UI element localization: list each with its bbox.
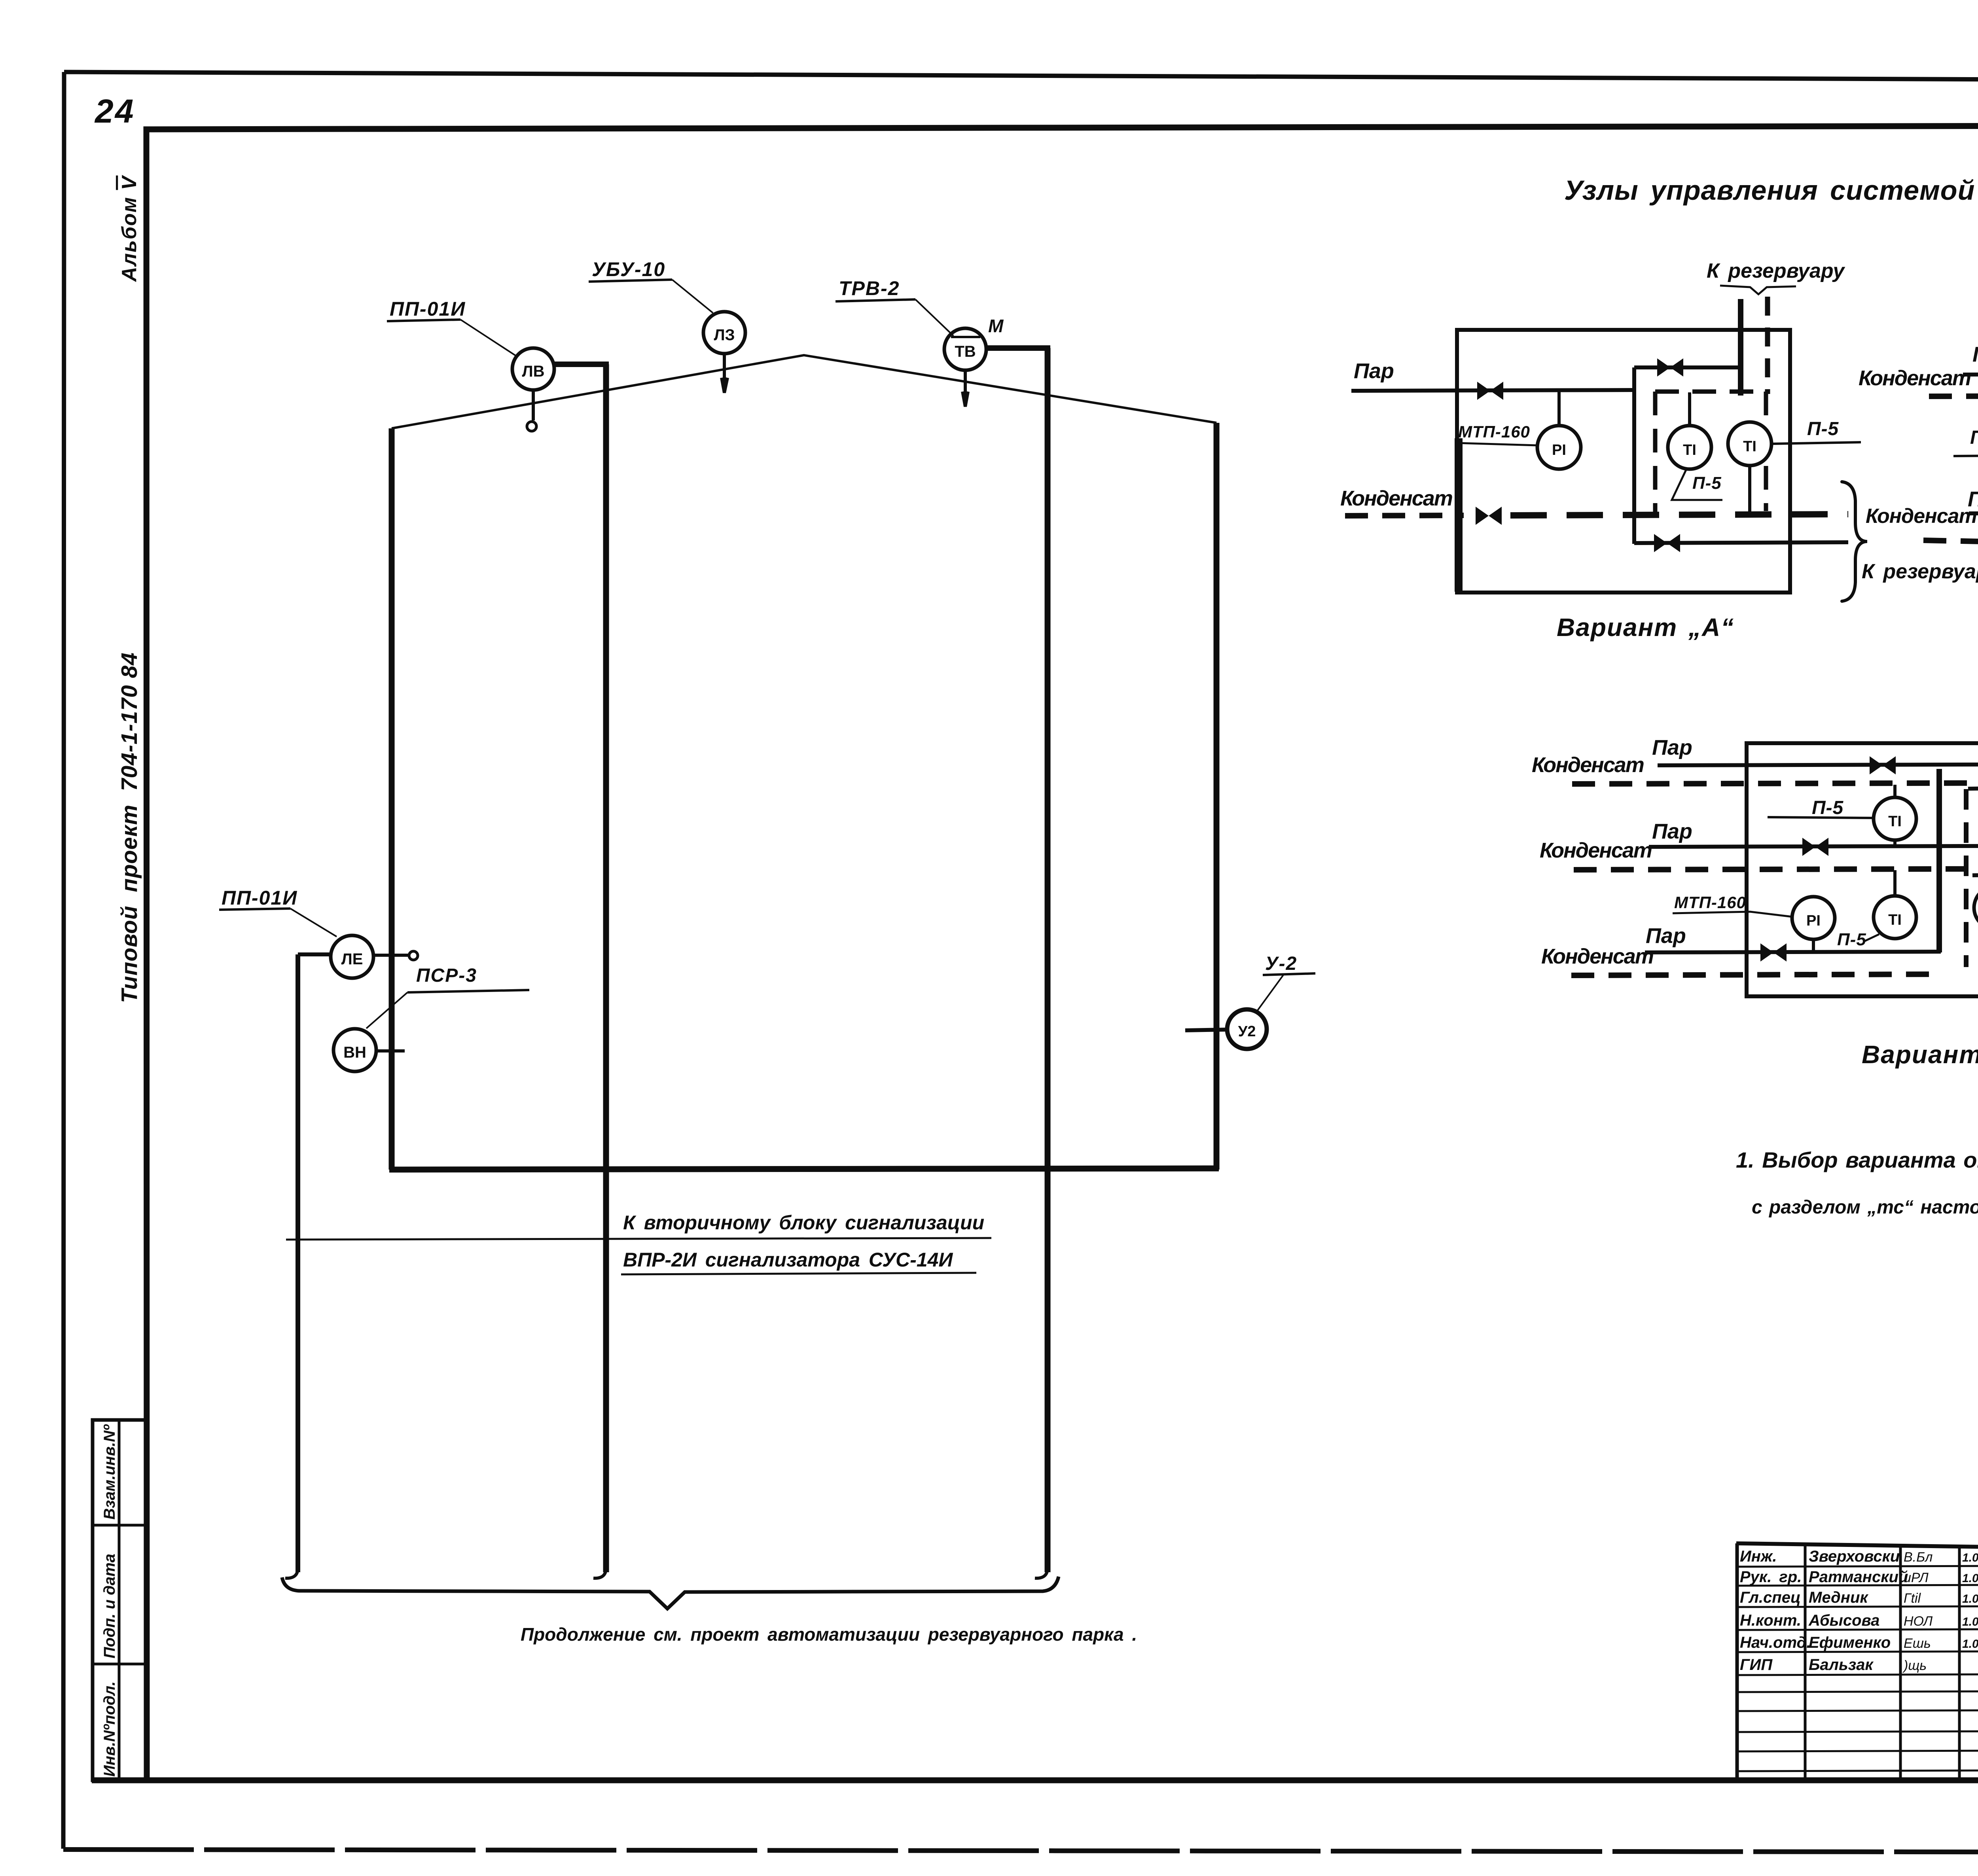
left margin table row line 2 xyxy=(93,1663,147,1666)
svg-text:ЛВ: ЛВ xyxy=(522,363,545,380)
steam pipe B2 xyxy=(1969,513,1978,513)
svg-text:Рук. гр.: Рук. гр. xyxy=(1740,1568,1802,1586)
signature table column date xyxy=(1958,1547,1961,1780)
signature table row line 5 xyxy=(1737,1651,1978,1652)
instrument LE output terminal xyxy=(409,951,418,960)
heater pipe 1 bottom hook xyxy=(593,1566,606,1578)
heater pipe 2 bottom hook xyxy=(1035,1566,1048,1578)
signature table row line 4 xyxy=(1737,1629,1978,1630)
svg-text:Абысова: Абысова xyxy=(1808,1612,1879,1629)
steam supply pipe A xyxy=(1351,390,1635,391)
svg-text:ТВ: ТВ xyxy=(955,343,976,360)
variant A thick left edge xyxy=(1455,438,1463,592)
svg-text:Гtil: Гtil xyxy=(1904,1591,1921,1606)
signature table row line 1 xyxy=(1737,1566,1978,1567)
svg-text:П-5: П-5 xyxy=(1970,427,1978,448)
valve A2 xyxy=(1476,507,1502,525)
svg-text:Инж.: Инж. xyxy=(1740,1548,1777,1565)
svg-text:с разделом „тс“ настоящего про: с разделом „тс“ настоящего проекта. xyxy=(1752,1197,1978,1218)
instrument LE output wire xyxy=(373,954,408,957)
svg-text:П-5: П-5 xyxy=(1807,418,1839,439)
svg-text:У2: У2 xyxy=(1238,1023,1256,1040)
svg-text:РI: РI xyxy=(1806,912,1821,929)
label U-2 underline xyxy=(1263,973,1315,975)
svg-text:Конденсат: Конденсат xyxy=(1340,487,1452,510)
svg-text:Ефименко: Ефименко xyxy=(1809,1634,1891,1651)
left margin table divider xyxy=(118,1420,121,1780)
svg-text:иРЛ: иРЛ xyxy=(1904,1570,1929,1585)
svg-text:1.04.81: 1.04.81 xyxy=(1962,1615,1978,1628)
signature table row line 11 xyxy=(1737,1770,1978,1771)
svg-text:У-2: У-2 xyxy=(1265,953,1297,974)
instrument TI V top stem up xyxy=(1893,785,1897,797)
tank right wall xyxy=(1214,423,1220,1170)
instrument TI A2 xyxy=(1728,422,1771,466)
condensate pipe V1 xyxy=(1572,783,1978,784)
variant A inner box left xyxy=(1632,367,1636,544)
valve V3 xyxy=(1760,943,1787,962)
instrument LV probe hook xyxy=(527,422,536,431)
svg-text:ПСР-3: ПСР-3 xyxy=(416,965,477,986)
tank roof xyxy=(392,355,1216,428)
label U-2 leader xyxy=(1257,975,1283,1011)
svg-text:Альбом V: Альбом V xyxy=(118,174,141,282)
svg-text:Конденсат: Конденсат xyxy=(1541,945,1653,968)
instrument PI A xyxy=(1537,426,1581,469)
signature table row line 7 xyxy=(1737,1691,1978,1692)
label TRV-2 leader xyxy=(915,299,953,336)
svg-text:Конденсат: Конденсат xyxy=(1866,505,1977,528)
svg-text:Пар: Пар xyxy=(1968,487,1978,511)
signature table row line 8 xyxy=(1737,1710,1978,1711)
title block signature table left edge xyxy=(1735,1543,1739,1780)
signature table column name xyxy=(1804,1545,1807,1780)
instrument LZ probe stem xyxy=(722,354,728,393)
svg-text:УБУ-10: УБУ-10 xyxy=(592,258,665,280)
svg-text:ТI: ТI xyxy=(1743,438,1756,455)
svg-text:Нач.отд.: Нач.отд. xyxy=(1740,1634,1811,1651)
instrument TI V mid xyxy=(1874,896,1916,939)
svg-text:Ратманский: Ратманский xyxy=(1809,1568,1908,1586)
steam pipe V1 xyxy=(1658,764,1978,765)
note rule xyxy=(286,1238,991,1240)
svg-text:ЛЗ: ЛЗ xyxy=(714,326,735,344)
svg-text:Инв.Nºподл.: Инв.Nºподл. xyxy=(101,1681,118,1777)
svg-text:ПП-01И: ПП-01И xyxy=(390,298,466,320)
to reservoir pipe solid A xyxy=(1738,299,1743,396)
svg-text:ТI: ТI xyxy=(1888,813,1902,830)
instrument TV connection wire xyxy=(985,345,1050,351)
svg-text:МТП-160: МТП-160 xyxy=(1458,422,1530,441)
svg-text:Вариант „А“: Вариант „А“ xyxy=(1557,613,1734,642)
instrument TI V top stem down xyxy=(1893,840,1897,847)
svg-text:1.04.81: 1.04.81 xyxy=(1962,1572,1978,1585)
svg-text:ГИП: ГИП xyxy=(1740,1656,1773,1673)
steam pipe V2 xyxy=(1649,846,1978,847)
riser pipe V xyxy=(1936,769,1942,952)
instrument TI V r1 stem bar xyxy=(1972,875,1978,875)
instrument VN output wire xyxy=(376,1049,405,1053)
variant A enclosure box xyxy=(1457,330,1790,593)
instrument TI A1 stem xyxy=(1688,392,1691,426)
svg-text:М: М xyxy=(988,316,1004,336)
dashed bar V top xyxy=(1968,788,1978,789)
condensate pipe V3 xyxy=(1571,974,1939,975)
condensate pipe A inside xyxy=(1510,514,1848,515)
instrument TI A2 output line xyxy=(1771,442,1861,444)
svg-text:К вторичному блоку сигнализаци: К вторичному блоку сигнализации xyxy=(623,1212,984,1234)
svg-text:В.Бл: В.Бл xyxy=(1904,1550,1933,1565)
condensate pipe B2 xyxy=(1923,540,1978,547)
svg-text:ТI: ТI xyxy=(1683,442,1696,458)
svg-text:МТП-160: МТП-160 xyxy=(1674,893,1746,912)
instrument U2 wire xyxy=(1185,1030,1228,1030)
instrument LV connection wire xyxy=(553,362,609,367)
variant A inner box top xyxy=(1634,365,1741,369)
instrument PI V stem down xyxy=(1812,939,1815,952)
svg-text:ТI: ТI xyxy=(1888,912,1902,928)
svg-text:Медник: Медник xyxy=(1809,1589,1868,1606)
svg-text:Вариант „В“: Вариант „В“ xyxy=(1862,1040,1978,1069)
signature table row line 2 xyxy=(1737,1585,1978,1586)
variant A dashed box top xyxy=(1655,390,1766,394)
valve V2a xyxy=(1802,838,1828,856)
tank bottom xyxy=(389,1168,1219,1170)
svg-text:ТРВ-2: ТРВ-2 xyxy=(839,277,900,299)
svg-text:П-5: П-5 xyxy=(1692,473,1722,493)
left margin table row line 1 xyxy=(93,1524,147,1527)
instrument PI V xyxy=(1792,897,1835,939)
svg-text:П-5: П-5 xyxy=(1812,797,1844,818)
instrument TI V r1 xyxy=(1974,886,1978,929)
impulse line V top xyxy=(1768,817,1875,818)
signal line left xyxy=(296,954,300,1572)
svg-text:Конденсат: Конденсат xyxy=(1859,366,1970,390)
svg-text:Гл.спец: Гл.спец xyxy=(1740,1589,1801,1606)
inner frame bottom border xyxy=(92,1778,1978,1783)
instrument LE xyxy=(331,935,373,978)
to reservoir pipe dashed A xyxy=(1765,297,1770,394)
label UBU-10 underline xyxy=(589,280,672,282)
instrument TI A2 stem down xyxy=(1748,466,1751,514)
svg-text:Конденсат: Конденсат xyxy=(1532,753,1644,777)
variant A dashed box right xyxy=(1764,392,1768,511)
svg-text:ПП-01И: ПП-01И xyxy=(222,887,297,909)
label PP-01I left underline xyxy=(219,909,290,910)
heater pipe 1 xyxy=(603,364,609,1572)
condensate pipe B1 xyxy=(1929,395,1978,396)
svg-text:П-5: П-5 xyxy=(1837,930,1866,949)
valve A1 xyxy=(1477,382,1503,400)
svg-text:Зверховски: Зверховски xyxy=(1809,1548,1900,1565)
svg-text:1.04.81: 1.04.81 xyxy=(1962,1637,1978,1651)
left margin table box xyxy=(93,1420,147,1780)
svg-text:Подп. и дата: Подп. и дата xyxy=(101,1554,118,1658)
instrument TV xyxy=(944,328,986,370)
svg-text:)щь: )щь xyxy=(1902,1658,1927,1673)
continuation brace xyxy=(282,1577,1059,1609)
label K rezervuaru A bracket xyxy=(1720,286,1796,294)
variant A dashed box left xyxy=(1653,392,1658,514)
svg-text:Взам.инв.Nº: Взам.инв.Nº xyxy=(101,1424,118,1520)
condensate return pipe A xyxy=(1634,542,1848,543)
svg-text:Пар: Пар xyxy=(1646,924,1686,948)
variant A output brace xyxy=(1842,482,1867,601)
impulse line B xyxy=(1953,455,1978,456)
condensate pipe V2 xyxy=(1574,869,1978,870)
steam pipe V3 xyxy=(1645,952,1941,952)
label MTP-160 V leader xyxy=(1673,912,1793,917)
svg-text:Типовой проект 704-1-170 84: Типовой проект 704-1-170 84 xyxy=(117,652,142,1003)
instrument TI V top xyxy=(1874,797,1916,840)
instrument TI V mid stem up xyxy=(1893,870,1897,896)
svg-text:Конденсат: Конденсат xyxy=(1540,839,1652,862)
dashed vertical V xyxy=(1964,789,1969,967)
valve V1a xyxy=(1870,756,1896,774)
signature table row line 10 xyxy=(1737,1751,1978,1751)
svg-text:К резервуару: К резервуару xyxy=(1707,259,1845,282)
outer border bottom xyxy=(63,1849,1978,1853)
instrument PI A stem xyxy=(1557,391,1561,426)
condensate pipe A outside xyxy=(1345,515,1464,516)
svg-text:Пар: Пар xyxy=(1354,359,1394,383)
svg-text:Н.конт.: Н.конт. xyxy=(1740,1612,1801,1629)
label PP-01I left leader xyxy=(290,909,337,937)
label MTP-160 A leader xyxy=(1457,443,1537,445)
variant V enclosure box xyxy=(1747,743,1978,996)
instrument LV xyxy=(512,348,554,390)
label PP-01I top leader xyxy=(460,320,517,357)
signal line left bottom hook xyxy=(285,1566,298,1578)
svg-text:Бальзак: Бальзак xyxy=(1809,1656,1874,1673)
instrument U2 xyxy=(1227,1009,1267,1049)
note underline 2 xyxy=(621,1273,976,1274)
instrument TI A1 xyxy=(1668,426,1711,469)
label PSR-3 leader xyxy=(366,992,407,1028)
svg-text:К резервуару: К резервуару xyxy=(1862,560,1978,583)
signature table row line 3 xyxy=(1737,1606,1978,1607)
svg-text:Продолжение см. проект автомат: Продолжение см. проект автоматизации рез… xyxy=(521,1624,1137,1645)
instrument TV panel bar xyxy=(951,336,980,338)
svg-text:Пар: Пар xyxy=(1652,820,1692,843)
signature table row line 9 xyxy=(1737,1731,1978,1732)
svg-text:Пар: Пар xyxy=(1972,343,1978,366)
svg-text:Пар: Пар xyxy=(1652,736,1692,759)
svg-text:Ешь: Ешь xyxy=(1904,1636,1931,1651)
svg-text:1.04.84: 1.04.84 xyxy=(1962,1551,1978,1564)
label P-5 V small leader xyxy=(1864,934,1879,941)
instrument LE wire to signal line xyxy=(298,952,332,956)
title block top edge xyxy=(1736,1543,1978,1554)
valve A3 on inner box top xyxy=(1657,358,1683,377)
label TRV-2 underline xyxy=(836,299,915,301)
svg-text:24: 24 xyxy=(94,93,135,130)
svg-text:Узлы управления системой по: Узлы управления системой подогрева xyxy=(1564,175,1978,206)
instrument TV probe stem xyxy=(962,370,968,407)
signature table column sign xyxy=(1899,1546,1902,1780)
svg-text:РI: РI xyxy=(1552,442,1566,458)
svg-text:ВН: ВН xyxy=(343,1044,366,1061)
instrument LZ xyxy=(703,312,745,354)
label PSR-3 underline xyxy=(407,990,529,992)
signature table row line 6 xyxy=(1737,1674,1978,1675)
svg-text:НОЛ: НОЛ xyxy=(1904,1614,1933,1629)
steam pipe B1 xyxy=(1963,373,1978,375)
valve A4 xyxy=(1654,534,1680,552)
label P-5 A below leader xyxy=(1672,470,1722,500)
instrument LV probe stem xyxy=(532,390,535,420)
svg-text:ЛЕ: ЛЕ xyxy=(341,950,363,968)
svg-text:1. Выбор варианта определяет: 1. Выбор варианта определяется в соответ… xyxy=(1736,1147,1978,1172)
tank left wall xyxy=(389,428,395,1170)
svg-text:ВПР-2И сигнализатора СУС-14И: ВПР-2И сигнализатора СУС-14И xyxy=(623,1249,953,1271)
label UBU-10 leader xyxy=(672,280,713,313)
instrument VN xyxy=(333,1029,376,1071)
svg-text:1.04.8: 1.04.8 xyxy=(1962,1592,1978,1605)
label PP-01I top underline xyxy=(387,320,460,321)
heater pipe 2 xyxy=(1045,348,1051,1572)
